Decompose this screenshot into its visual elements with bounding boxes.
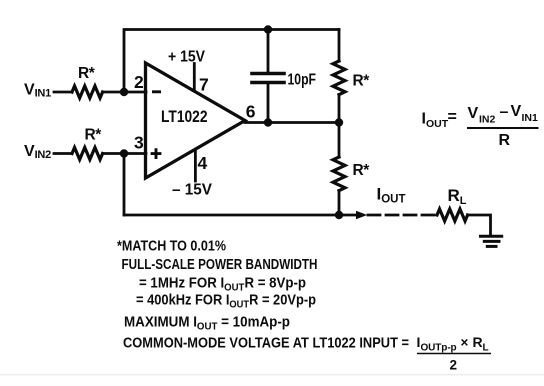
- wire capacitor bottom lead: [267, 84, 270, 123]
- svg-text:4: 4: [198, 153, 208, 173]
- ground symbol bar 3: [487, 245, 496, 248]
- resistor RL: [437, 209, 468, 221]
- svg-text:2: 2: [450, 358, 458, 373]
- wire pin 7 +15V: [193, 64, 196, 92]
- wire op-amp output pin 6: [245, 121, 339, 124]
- svg-text:3: 3: [134, 133, 144, 153]
- arrow IOUT: [356, 211, 367, 220]
- svg-text:COMMON-MODE VOLTAGE AT LT1022: COMMON-MODE VOLTAGE AT LT1022 INPUT =: [123, 335, 409, 351]
- wire output node to arrow: [339, 214, 356, 217]
- formula fraction bar 2: [417, 353, 491, 355]
- svg-text:IN2: IN2: [479, 114, 496, 126]
- svg-text:2: 2: [134, 72, 144, 92]
- wire VIN1 input to resistor: [54, 91, 72, 94]
- wire top rail down to feedback resistor: [338, 30, 341, 62]
- wire lower resistor to bottom rail: [338, 191, 341, 215]
- resistor R* (VIN1 input): [72, 86, 103, 98]
- resistor R* lower (vertical): [333, 157, 345, 191]
- wire VIN2 input to resistor: [54, 152, 72, 155]
- wire dashed IOUT line: [368, 214, 436, 217]
- svg-text:R: R: [499, 132, 511, 149]
- svg-text:– 15V: – 15V: [172, 182, 213, 199]
- capacitor C1 10pF top plate: [252, 72, 284, 76]
- svg-text:R*: R*: [353, 73, 371, 90]
- wire feedback resistor to output node: [338, 95, 341, 123]
- svg-text:R*: R*: [78, 65, 96, 82]
- svg-text:IN1: IN1: [522, 112, 539, 124]
- svg-text:R*: R*: [353, 162, 371, 179]
- svg-text:FULL-SCALE POWER BANDWIDTH: FULL-SCALE POWER BANDWIDTH: [122, 257, 318, 273]
- op-amp U1 LT1022 triangle: [146, 63, 246, 178]
- svg-text:R*: R*: [85, 127, 103, 144]
- wire resistor to op-amp pin 2: [103, 91, 146, 94]
- wire RL to ground: [468, 215, 491, 235]
- svg-text:V: V: [511, 103, 522, 120]
- wire bottom rail: [124, 214, 339, 217]
- wire pin 4 -15V: [194, 150, 197, 182]
- svg-text:×: ×: [461, 335, 469, 350]
- node junction capacitor top: [264, 25, 272, 33]
- node junction VIN1/feedback: [120, 88, 128, 96]
- wire noninverting node down to bottom rail: [123, 154, 126, 216]
- svg-text:=: =: [448, 109, 457, 126]
- resistor R* (VIN2 input): [72, 148, 103, 160]
- scan streak artifact: [0, 374, 544, 375]
- svg-text:7: 7: [199, 75, 209, 95]
- svg-text:*MATCH TO 0.01%: *MATCH TO 0.01%: [117, 239, 226, 255]
- svg-text:–: –: [500, 104, 509, 121]
- ground symbol bar 2: [484, 240, 499, 243]
- svg-text:= 400kHz FOR IOUTR = 20Vp-p: = 400kHz FOR IOUTR = 20Vp-p: [136, 292, 316, 310]
- label minus input: [152, 90, 161, 93]
- resistor R* feedback (vertical): [333, 61, 345, 95]
- wire capacitor top lead: [267, 30, 270, 73]
- svg-text:OUT: OUT: [426, 118, 449, 130]
- capacitor C1 10pF bottom plate: [252, 81, 284, 85]
- svg-text:V: V: [468, 105, 479, 122]
- node junction capacitor bottom / output: [264, 118, 272, 126]
- svg-text:OUTp-p: OUTp-p: [421, 343, 457, 354]
- label plus input: [151, 148, 162, 159]
- node junction VIN2/rail: [120, 149, 128, 157]
- formula fraction bar: [467, 127, 539, 129]
- node junction bottom rail / load: [335, 211, 343, 219]
- wire feedback from inverting input node up and across top: [124, 30, 339, 93]
- svg-text:10pF: 10pF: [288, 71, 317, 88]
- svg-text:6: 6: [246, 102, 256, 122]
- wire output node down to lower resistor: [338, 123, 341, 158]
- ground symbol bar 1: [481, 235, 502, 238]
- wire resistor to op-amp pin 3: [103, 152, 146, 155]
- svg-text:R: R: [473, 334, 483, 350]
- svg-text:= 1MHz FOR IOUTR = 8Vp-p: = 1MHz FOR IOUTR = 8Vp-p: [139, 275, 306, 293]
- svg-text:LT1022: LT1022: [161, 107, 208, 126]
- svg-text:+ 15V: + 15V: [168, 48, 206, 65]
- svg-text:L: L: [483, 343, 489, 354]
- node junction output / feedback resistor: [335, 118, 343, 126]
